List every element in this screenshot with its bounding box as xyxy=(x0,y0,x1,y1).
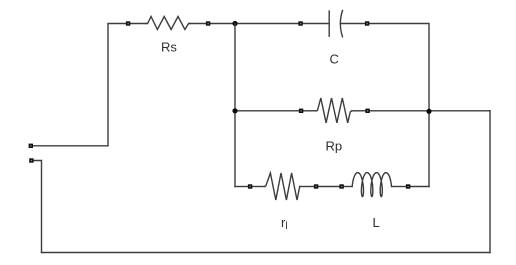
wire: L right terminal to inner rail corner xyxy=(410,186,429,188)
svg-text:Rp: Rp xyxy=(326,139,343,154)
wire: L left lead xyxy=(344,186,353,188)
terminal rl right xyxy=(314,184,318,188)
junction dot node B (inner rail crosses Rp wire) xyxy=(426,109,431,114)
svg-text:C: C xyxy=(330,52,339,67)
wire: Rp right terminal to right rail xyxy=(370,110,491,112)
wire: right rail xyxy=(489,111,491,253)
wire: rl right lead xyxy=(300,186,314,188)
wire: capacitor right terminal to top-right corner and down (node B) xyxy=(369,24,429,109)
node A junction dot xyxy=(232,21,237,26)
wire: Rs right lead to node A xyxy=(190,23,206,25)
terminal rl left xyxy=(248,184,252,188)
wire: rl left lead xyxy=(252,186,265,188)
wire: Rp right lead xyxy=(352,110,366,112)
wire: L right lead xyxy=(392,186,406,188)
wire: Rs left lead xyxy=(130,23,146,25)
wire: Rp left lead xyxy=(303,110,317,112)
svg-text:L: L xyxy=(373,215,380,230)
svg-text:Rs: Rs xyxy=(161,40,177,55)
terminal C left xyxy=(298,21,302,25)
terminal input top xyxy=(29,144,33,148)
wire: bottom branch left lead from rail to rl terminal xyxy=(235,186,248,188)
terminal Rp left xyxy=(299,109,303,113)
terminal Rs right xyxy=(206,21,210,25)
capacitor C right plate (curved) xyxy=(340,11,342,37)
resistor rl xyxy=(265,173,300,200)
resistor Rs xyxy=(146,17,190,30)
terminal L left xyxy=(339,184,343,188)
terminal Rs left xyxy=(126,21,130,25)
capacitor C left plate xyxy=(328,11,330,36)
terminal Rp right xyxy=(365,109,369,113)
wire: Rp rail left segment xyxy=(235,110,299,112)
inductor L xyxy=(352,173,391,197)
wire: capacitor right lead xyxy=(342,23,366,25)
svg-text:rl: rl xyxy=(281,215,288,232)
terminal C right xyxy=(365,21,369,25)
wire: node A to capacitor left terminal xyxy=(210,23,299,25)
resistor Rp xyxy=(317,98,352,123)
wire: between rl and L terminals xyxy=(318,186,340,188)
wire: capacitor left lead xyxy=(303,23,329,25)
wire: bottom rail xyxy=(42,252,491,254)
wire: inner right rail below junction xyxy=(428,109,430,187)
wire: upper-left input lead from terminal to riser xyxy=(33,24,126,146)
junction dot left rail / Rp xyxy=(232,108,237,113)
wire: lower-left input lead down xyxy=(34,161,42,253)
terminal L right xyxy=(406,184,410,188)
terminal input bottom xyxy=(29,158,33,162)
wire: left parallel rail xyxy=(234,24,236,187)
